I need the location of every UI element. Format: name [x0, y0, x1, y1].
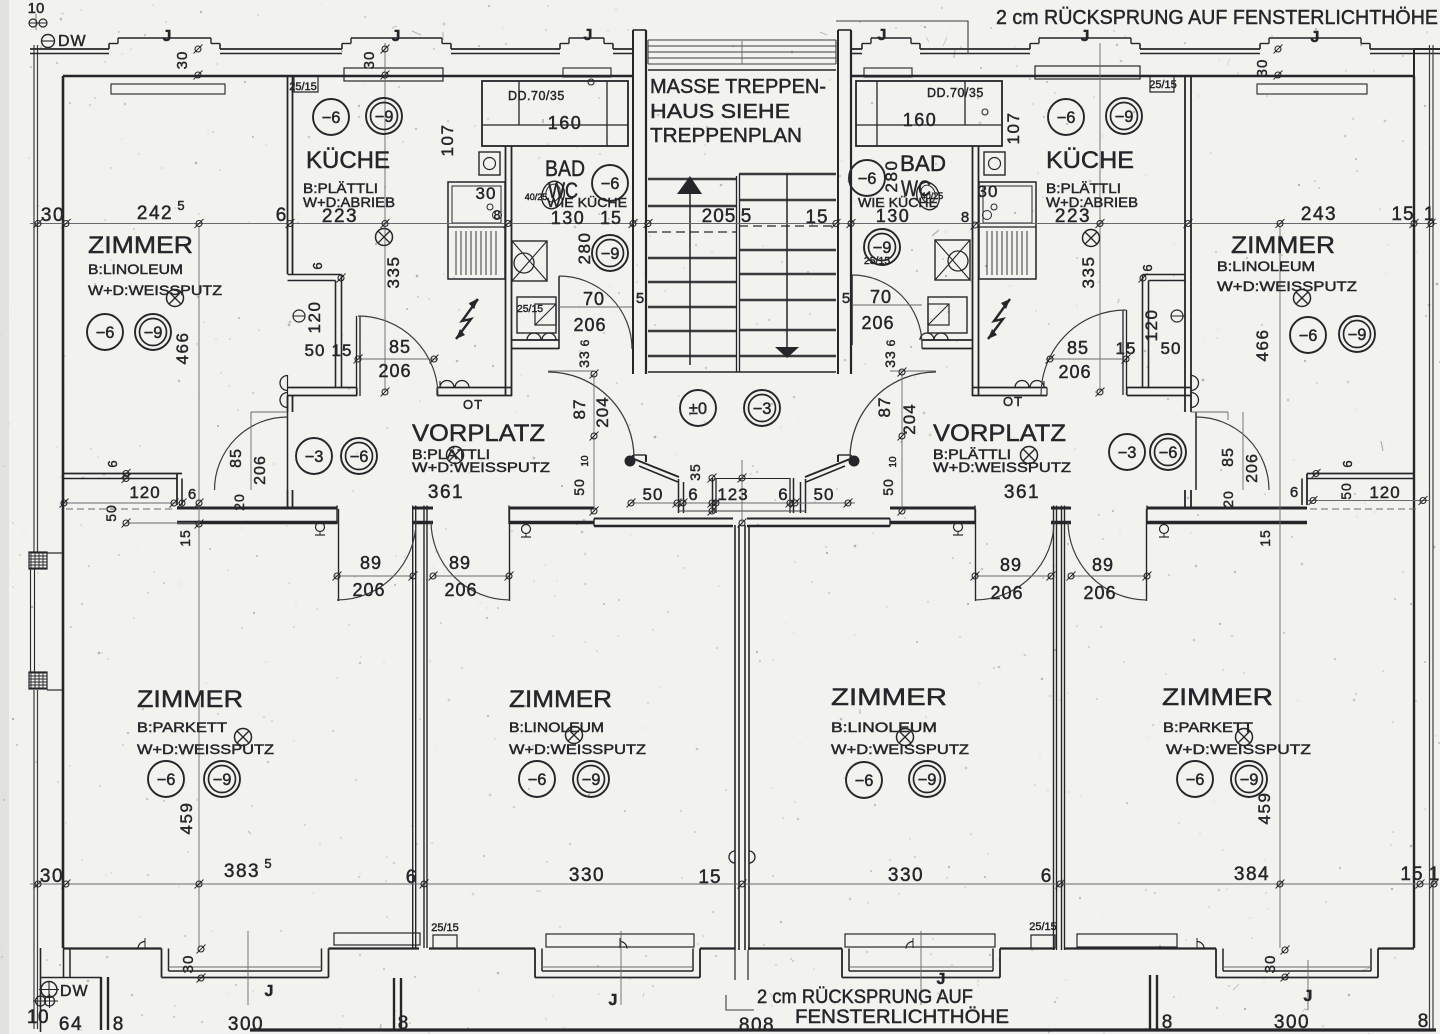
washbasins vorplatz right	[1015, 381, 1029, 388]
svg-text:−6: −6	[855, 772, 874, 790]
svg-text:160: 160	[903, 110, 938, 130]
svg-text:15: 15	[1257, 529, 1273, 547]
svg-text:6: 6	[1340, 460, 1355, 467]
window center ticks bottom	[247, 931, 249, 1005]
svg-text:J: J	[1304, 988, 1313, 1005]
svg-text:J: J	[163, 28, 172, 45]
zimmer door vertical dim left	[250, 412, 252, 490]
svg-text:50: 50	[814, 485, 835, 504]
svg-text:8: 8	[1162, 1012, 1173, 1033]
svg-text:50: 50	[571, 478, 587, 496]
svg-text:6: 6	[105, 460, 120, 467]
svg-text:B:LINOLEUM: B:LINOLEUM	[509, 719, 604, 735]
svg-text:KÜCHE: KÜCHE	[306, 147, 390, 174]
bad door dim left	[559, 306, 632, 308]
svg-text:204: 204	[900, 403, 919, 434]
corridor wall above lower rooms (right apt)	[890, 507, 975, 510]
svg-text:B:PARKETT: B:PARKETT	[137, 719, 228, 735]
svg-text:MASSE TREPPEN-: MASSE TREPPEN-	[650, 76, 826, 98]
svg-text:6: 6	[1290, 484, 1298, 501]
svg-text:335: 335	[384, 256, 403, 289]
svg-text:OT: OT	[1003, 394, 1023, 409]
entry door left apartment	[548, 372, 634, 458]
svg-text:5: 5	[177, 198, 184, 213]
doors lower-right rooms: leaves and arcs	[975, 509, 977, 601]
svg-text:335: 335	[1079, 256, 1098, 289]
bad south wall right	[922, 339, 972, 341]
svg-text:10: 10	[28, 0, 45, 17]
stair down arrow	[786, 173, 788, 347]
main dimension line upper	[30, 223, 1437, 225]
svg-text:160: 160	[548, 113, 583, 133]
svg-text:ZIMMER: ZIMMER	[831, 684, 947, 711]
shaft DD.70/35 left	[482, 81, 628, 146]
appliance with diagonal left	[517, 297, 556, 333]
svg-text:459: 459	[177, 802, 196, 835]
svg-text:6: 6	[406, 867, 417, 888]
svg-text:J: J	[878, 27, 887, 44]
svg-text:J: J	[392, 28, 401, 45]
window frame kitchen left	[344, 68, 443, 81]
svg-text:6: 6	[276, 205, 287, 226]
level circles vorplatz right	[1109, 434, 1145, 470]
svg-text:89: 89	[449, 553, 471, 573]
svg-text:6: 6	[1140, 264, 1155, 271]
svg-text:W+D:WEISSPUTZ: W+D:WEISSPUTZ	[1217, 278, 1358, 294]
svg-text:223: 223	[322, 206, 358, 227]
svg-text:5: 5	[264, 856, 271, 871]
vorplatz north wall right	[972, 387, 1047, 389]
svg-text:TREPPENPLAN: TREPPENPLAN	[650, 125, 802, 147]
svg-text:85: 85	[1220, 447, 1237, 467]
svg-text:−9: −9	[873, 239, 892, 257]
wall notch 25/15 left	[294, 76, 318, 92]
svg-text:−9: −9	[213, 771, 232, 789]
level circles bad right	[849, 160, 885, 196]
svg-text:120: 120	[1142, 309, 1161, 342]
svg-text:DD.70/35: DD.70/35	[927, 86, 984, 100]
svg-text:8: 8	[961, 209, 969, 226]
vertical ref line left zimmer	[198, 226, 200, 948]
svg-text:15: 15	[1391, 204, 1414, 225]
level circles vorplatz left	[296, 438, 332, 474]
svg-text:−3: −3	[753, 400, 772, 418]
leader top rücksprung	[836, 21, 968, 54]
main dimension line lower	[30, 883, 1437, 885]
DOORS	[215, 275, 1270, 601]
level circles kueche left	[313, 99, 349, 135]
svg-text:223: 223	[1055, 206, 1091, 227]
stair treads right flight	[739, 173, 836, 175]
svg-text:107: 107	[1004, 112, 1023, 145]
DW symbol bottom-left	[41, 982, 57, 998]
svg-text:30: 30	[361, 51, 378, 70]
small bad window frames	[563, 68, 611, 77]
level circles upper zimmer left	[87, 314, 123, 350]
svg-text:15: 15	[1116, 339, 1137, 358]
stairwell west wall	[632, 30, 634, 374]
STAIRWELL	[648, 173, 836, 372]
wc toilet right	[913, 179, 943, 212]
niche wall top-left of lower-left zimmer	[63, 473, 182, 475]
svg-text:ZIMMER: ZIMMER	[509, 686, 612, 713]
svg-text:DD.70/35: DD.70/35	[508, 89, 565, 103]
lightning symbol left bad	[456, 299, 478, 339]
svg-text:−3: −3	[305, 448, 324, 466]
kitchen unit right	[979, 182, 1036, 279]
svg-text:25/15: 25/15	[431, 922, 459, 934]
partition zimmer/vorplatz left lower stubs + door	[287, 396, 289, 413]
svg-text:30: 30	[476, 184, 497, 203]
level circles stairwell	[680, 390, 716, 426]
svg-text:206: 206	[444, 580, 477, 600]
door stop symbols bottom walls	[138, 942, 145, 949]
washbasins kueche right wall	[1191, 376, 1199, 391]
svg-text:−6: −6	[528, 771, 547, 789]
svg-text:466: 466	[1253, 329, 1272, 362]
svg-text:206: 206	[1083, 583, 1116, 603]
svg-text:KÜCHE: KÜCHE	[1046, 147, 1134, 174]
partition between lower-right zimmer pair	[1053, 506, 1055, 951]
svg-text:204: 204	[593, 396, 612, 427]
svg-text:30: 30	[174, 51, 191, 70]
radiator below window zimmer top-right	[1257, 84, 1367, 94]
svg-text:206: 206	[1244, 453, 1261, 483]
svg-text:W+D:WEISSPUTZ: W+D:WEISSPUTZ	[88, 282, 223, 298]
svg-text:383: 383	[224, 861, 260, 882]
stove left	[512, 241, 547, 281]
svg-text:242: 242	[137, 203, 173, 224]
door bad right leaf+arc	[851, 275, 853, 345]
svg-text:2 cm RÜCKSPRUNG AUF FENSTERLIC: 2 cm RÜCKSPRUNG AUF FENSTERLICHTHÖHE	[996, 7, 1438, 29]
svg-text:15: 15	[805, 207, 828, 228]
vertical ref line right zimmer	[1279, 226, 1281, 948]
entrance dim line	[630, 502, 855, 504]
svg-text:DW: DW	[58, 33, 87, 50]
svg-text:33: 33	[576, 350, 592, 368]
entry door right apartment	[850, 372, 936, 458]
wall notch 25/15 right	[1150, 76, 1174, 92]
bay window on west wall	[29, 552, 47, 569]
svg-text:−6: −6	[1159, 444, 1178, 462]
svg-text:6: 6	[688, 485, 697, 504]
svg-text:15: 15	[600, 208, 622, 228]
svg-text:FENSTERLICHTHÖHE: FENSTERLICHTHÖHE	[795, 1007, 1009, 1028]
svg-text:85: 85	[1067, 338, 1089, 358]
svg-text:6: 6	[884, 339, 898, 346]
svg-text:B:LINOLEUM: B:LINOLEUM	[1217, 258, 1315, 274]
svg-text:123: 123	[717, 485, 748, 504]
washbasins right bad	[920, 333, 934, 340]
svg-text:50: 50	[103, 504, 119, 522]
svg-text:−9: −9	[1348, 326, 1367, 344]
svg-text:120: 120	[129, 483, 160, 502]
svg-text:25/15: 25/15	[517, 303, 543, 315]
svg-text:W+D:WEISSPUTZ: W+D:WEISSPUTZ	[412, 459, 551, 475]
svg-text:30: 30	[1254, 59, 1271, 78]
svg-text:130: 130	[551, 208, 586, 228]
svg-text:BAD: BAD	[900, 151, 946, 176]
svg-text:−9: −9	[375, 108, 394, 126]
svg-text:ZIMMER: ZIMMER	[88, 232, 193, 259]
partition kueche/zimmer right	[1184, 76, 1186, 412]
svg-text:361: 361	[1004, 482, 1040, 503]
vertical ref line kueche right	[1099, 43, 1101, 392]
niche dim lines lower corners	[64, 502, 180, 504]
svg-text:50: 50	[880, 478, 896, 496]
svg-text:−3: −3	[1118, 444, 1137, 462]
kueche door dim left	[358, 358, 438, 360]
bottom wall (south) with window bays	[63, 947, 162, 949]
svg-text:J: J	[609, 992, 618, 1009]
svg-text:J: J	[584, 27, 593, 44]
svg-text:−6: −6	[157, 771, 176, 789]
svg-text:85: 85	[228, 448, 245, 468]
svg-text:25/15: 25/15	[1149, 79, 1177, 91]
bad south wall left	[512, 339, 559, 341]
svg-text:206: 206	[573, 315, 606, 335]
door knob kueche left	[293, 310, 305, 322]
svg-text:15: 15	[177, 529, 193, 547]
svg-text:8: 8	[113, 1014, 124, 1034]
svg-text:−6: −6	[350, 448, 369, 466]
svg-text:107: 107	[438, 124, 457, 157]
svg-text:40/25: 40/25	[921, 191, 944, 201]
kueche door dim right	[1046, 358, 1126, 360]
level circles lower rooms	[148, 761, 184, 797]
washbasins left bad	[527, 333, 541, 340]
radiator below window zimmer top-left	[111, 84, 225, 94]
svg-text:VORPLATZ: VORPLATZ	[933, 420, 1066, 447]
stove right	[935, 240, 970, 280]
svg-text:206: 206	[352, 580, 385, 600]
svg-text:10: 10	[580, 455, 591, 467]
svg-text:330: 330	[888, 865, 924, 886]
svg-text:50: 50	[305, 341, 326, 360]
center axis entrance	[741, 460, 743, 526]
svg-text:15: 15	[698, 867, 721, 888]
svg-text:ZIMMER: ZIMMER	[137, 686, 243, 713]
level circles kueche right	[1048, 99, 1084, 135]
stair up arrow	[689, 194, 691, 365]
vorplatz north wall left	[288, 387, 358, 389]
lower 25/15 notches	[433, 935, 457, 949]
level circles bad left	[592, 165, 628, 201]
svg-text:384: 384	[1234, 864, 1270, 885]
svg-text:25/15: 25/15	[1029, 921, 1057, 933]
stairwell north window band	[648, 39, 836, 41]
svg-text:HAUS SIEHE: HAUS SIEHE	[650, 101, 790, 123]
svg-text:50: 50	[1161, 339, 1182, 358]
svg-text:−9: −9	[918, 771, 937, 789]
svg-text:206: 206	[378, 361, 411, 381]
svg-text:280: 280	[575, 232, 594, 265]
svg-text:−6: −6	[1299, 327, 1318, 345]
svg-text:33: 33	[882, 350, 898, 368]
svg-text:120: 120	[1369, 483, 1400, 502]
leader bottom rücksprung	[726, 995, 754, 1010]
svg-text:J: J	[1081, 28, 1090, 45]
lamp symbols	[167, 290, 184, 307]
washbasins kueche left wall	[280, 376, 287, 391]
svg-text:20: 20	[1220, 490, 1236, 508]
svg-text:808: 808	[739, 1015, 775, 1034]
svg-text:−9: −9	[601, 245, 620, 263]
svg-text:−9: −9	[1115, 108, 1134, 126]
svg-text:70: 70	[870, 287, 892, 307]
svg-text:15: 15	[332, 341, 353, 360]
svg-text:87: 87	[875, 397, 894, 418]
svg-text:−6: −6	[322, 109, 341, 127]
washbasins vorplatz left	[440, 381, 454, 388]
svg-text:J: J	[937, 971, 946, 988]
svg-text:6: 6	[778, 485, 787, 504]
svg-text:87: 87	[570, 399, 589, 420]
svg-text:ZIMMER: ZIMMER	[1162, 684, 1273, 711]
svg-text:J: J	[1311, 29, 1320, 46]
svg-text:VORPLATZ: VORPLATZ	[412, 420, 545, 447]
lightning symbol right bad	[988, 299, 1010, 339]
window frame kitchen right	[1035, 66, 1140, 79]
radiator rects lower rooms	[334, 933, 420, 945]
svg-text:5: 5	[636, 290, 644, 307]
svg-text:20: 20	[231, 493, 247, 511]
svg-text:205: 205	[702, 206, 737, 227]
doors lower-left rooms: leaves and arcs	[338, 509, 340, 601]
svg-text:206: 206	[861, 313, 894, 333]
svg-text:1: 1	[1424, 204, 1435, 225]
svg-text:6: 6	[578, 339, 592, 346]
vertical ref line kueche left	[384, 43, 386, 392]
bottom wall of vorplatz/entry zone	[594, 518, 733, 520]
svg-text:89: 89	[1092, 555, 1114, 575]
svg-text:89: 89	[360, 553, 382, 573]
outer wall top (north) with window openings	[30, 48, 109, 50]
door bad left leaf+arc	[558, 276, 560, 349]
door knob kueche right	[1171, 310, 1183, 322]
svg-text:6: 6	[310, 262, 325, 269]
svg-text:8: 8	[1418, 1011, 1429, 1032]
svg-text:120: 120	[305, 301, 324, 334]
level circles upper zimmer right	[1290, 317, 1326, 353]
svg-text:35: 35	[687, 463, 703, 481]
svg-text:459: 459	[1255, 792, 1274, 825]
svg-text:50: 50	[1338, 482, 1354, 500]
svg-text:−6: −6	[858, 170, 877, 188]
svg-text:5: 5	[842, 290, 850, 307]
svg-text:70: 70	[583, 289, 605, 309]
corridor wall above lower rooms (left apt)	[177, 507, 337, 510]
svg-text:30: 30	[40, 866, 64, 887]
bad door dim right	[852, 304, 922, 306]
svg-text:466: 466	[173, 332, 192, 365]
svg-text:206: 206	[252, 455, 269, 485]
door zimmer left (85) leaf+arc	[287, 412, 289, 490]
svg-text:30: 30	[180, 955, 197, 974]
svg-text:−9: −9	[1240, 771, 1259, 789]
zimmer door dim left	[251, 411, 287, 413]
bottom sub-structure / lower facade	[40, 948, 42, 1032]
partition between lower-left zimmer pair	[412, 506, 414, 949]
stairwell east wall	[837, 30, 839, 374]
niche wall top-right of lower-right zimmer	[1307, 473, 1414, 475]
svg-text:6: 6	[1041, 866, 1052, 887]
FIXTURES	[138, 152, 1204, 949]
svg-text:5: 5	[741, 206, 752, 227]
svg-text:25/15: 25/15	[289, 81, 317, 93]
outer wall right (east)	[1413, 76, 1415, 948]
stair treads left flight	[648, 178, 737, 180]
svg-text:W+D:WEISSPUTZ: W+D:WEISSPUTZ	[137, 741, 275, 757]
door dim lines lower rooms	[335, 575, 413, 577]
central wall between apartments lower	[734, 525, 736, 950]
svg-text:300: 300	[1274, 1012, 1310, 1033]
svg-text:1: 1	[1429, 864, 1440, 885]
zimmer door dim right	[1191, 411, 1228, 413]
svg-text:DW: DW	[60, 983, 89, 1000]
door zimmer right leaf+arc	[1195, 412, 1197, 490]
svg-text:10: 10	[888, 456, 899, 468]
svg-text:10: 10	[27, 1007, 49, 1028]
svg-text:85: 85	[389, 337, 411, 357]
partition kueche/bad left	[505, 146, 507, 396]
svg-text:89: 89	[1000, 555, 1022, 575]
svg-text:2 cm RÜCKSPRUNG AUF: 2 cm RÜCKSPRUNG AUF	[757, 987, 973, 1008]
svg-text:206: 206	[990, 583, 1023, 603]
svg-text:B:LINOLEUM: B:LINOLEUM	[88, 261, 183, 277]
svg-text:−6: −6	[601, 175, 620, 193]
door kueche left leaf+arc	[356, 316, 358, 396]
svg-text:ZIMMER: ZIMMER	[1231, 232, 1335, 259]
appliance with diagonal right	[928, 297, 967, 333]
zimmer door vertical dim right	[1242, 412, 1244, 490]
svg-text:330: 330	[569, 865, 605, 886]
wc closet square right	[984, 152, 1005, 175]
svg-text:8: 8	[494, 208, 501, 222]
svg-text:−9: −9	[144, 324, 163, 342]
partition zimmer/kueche left	[287, 76, 289, 274]
svg-text:243: 243	[1301, 204, 1337, 225]
stair divider	[736, 176, 738, 372]
kueche niche left	[288, 274, 342, 276]
svg-text:6: 6	[188, 486, 196, 503]
svg-text:206: 206	[1058, 362, 1091, 382]
svg-text:W+D:WEISSPUTZ: W+D:WEISSPUTZ	[933, 459, 1072, 475]
outer wall left (west)	[33, 45, 35, 553]
kitchen unit left (sink+counter)	[448, 182, 505, 279]
svg-text:8: 8	[398, 1013, 409, 1034]
svg-text:−6: −6	[1186, 771, 1205, 789]
door kueche right leaf+arc	[1122, 310, 1124, 395]
svg-text:J: J	[265, 983, 274, 1000]
wc closet square left	[479, 152, 500, 175]
svg-text:OT: OT	[463, 397, 483, 412]
kueche niche right	[1143, 274, 1186, 276]
svg-text:B:LINOLEUM: B:LINOLEUM	[831, 719, 937, 735]
svg-text:50: 50	[643, 485, 664, 504]
DW symbol top-left	[42, 35, 55, 48]
svg-text:30: 30	[978, 182, 999, 201]
door stop symbols lower doors	[316, 523, 325, 532]
svg-text:±0: ±0	[689, 400, 707, 418]
wc toilet left	[538, 178, 568, 211]
svg-text:−9: −9	[582, 771, 601, 789]
svg-text:361: 361	[428, 482, 464, 503]
top left DW ticks	[35, 14, 37, 30]
svg-text:40/25: 40/25	[525, 192, 548, 202]
svg-text:64: 64	[59, 1014, 83, 1034]
svg-text:−6: −6	[1057, 109, 1076, 127]
